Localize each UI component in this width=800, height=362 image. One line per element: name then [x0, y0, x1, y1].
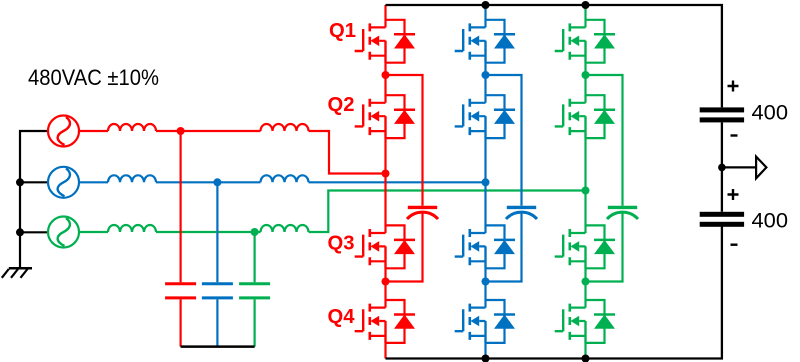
MOSFET Q4 with body diode (red)	[355, 300, 415, 343]
node B2 (leg B lower)	[482, 278, 490, 286]
inductor L1A	[108, 124, 156, 131]
node C1 (leg C upper)	[582, 71, 590, 79]
node N1 (rail-blue junction)	[16, 178, 24, 186]
svg-text:Q4: Q4	[328, 306, 356, 328]
wire DC midpoint	[721, 122, 723, 211]
polarity + of C2	[728, 189, 739, 200]
node C phase input	[582, 187, 590, 195]
wire phase A segment 1	[79, 131, 386, 174]
wire filter neutral (black)	[181, 345, 255, 348]
wire flying-cap branch C	[586, 75, 623, 282]
wire flying-cap branch B	[486, 75, 522, 282]
wire midpoint output	[722, 166, 756, 168]
wire phase B segment 1	[79, 181, 486, 183]
node B phase input	[482, 178, 490, 186]
node A phase input	[382, 170, 390, 178]
MOSFET SC2 with body diode (green)	[555, 95, 615, 138]
MOSFET SB1 with body diode (blue)	[455, 20, 515, 63]
MOSFET SB3 with body diode (blue)	[455, 225, 515, 268]
node N2 (rail-green junction)	[16, 228, 24, 236]
inductor L2A	[261, 124, 309, 131]
MOSFET SB4 with body diode (blue)	[455, 300, 515, 343]
svg-text:Q2: Q2	[328, 94, 355, 116]
svg-text:400: 400	[752, 210, 789, 233]
MOSFET SB2 with body diode (blue)	[455, 95, 515, 138]
node A1 (leg A upper)	[382, 71, 390, 79]
AC source VB (phase B, blue)	[48, 167, 79, 198]
inductor L1C	[108, 225, 156, 232]
filter capacitor CFC (green)	[239, 232, 270, 347]
filter capacitor CFA (red)	[165, 131, 196, 347]
DC link capacitor C1	[700, 107, 744, 122]
node DC midpoint	[718, 164, 726, 172]
node top bus B	[482, 1, 490, 9]
node top bus C	[582, 1, 590, 9]
filter capacitor CFB (blue)	[202, 182, 233, 346]
wire flying-cap branch A	[386, 75, 423, 282]
flying capacitor CC	[607, 207, 638, 219]
wire DC+ bus (top)	[386, 5, 722, 107]
wire DC- bus (bottom)	[386, 226, 722, 359]
node filter tap C	[251, 228, 259, 236]
MOSFET SC3 with body diode (green)	[555, 225, 615, 268]
node filter tap A	[177, 127, 185, 135]
MOSFET Q3 with body diode (red)	[355, 225, 415, 268]
node A2 (leg A lower)	[382, 278, 390, 286]
node filter tap B	[213, 178, 221, 186]
polarity - of C2	[731, 243, 738, 245]
DC link capacitor C2	[700, 212, 744, 227]
inductor L1B	[108, 175, 156, 182]
MOSFET SC1 with body diode (green)	[555, 20, 615, 63]
wire leg B vertical	[484, 5, 486, 359]
wire leg C vertical	[584, 5, 586, 359]
inductor L2C	[261, 225, 309, 232]
node C2 (leg C lower)	[582, 278, 590, 286]
wire leg A vertical	[384, 5, 386, 359]
polarity + of C1	[728, 81, 739, 92]
svg-text:400: 400	[752, 102, 789, 125]
MOSFET Q2 with body diode (red)	[355, 95, 415, 138]
svg-text:480VAC ±10%: 480VAC ±10%	[28, 65, 159, 90]
svg-text:Q3: Q3	[328, 232, 355, 254]
node bottom bus C	[582, 355, 590, 362]
output arrow terminal	[756, 157, 766, 179]
MOSFET SC4 with body diode (green)	[555, 300, 615, 343]
flying capacitor CB	[506, 207, 537, 219]
node bottom bus B	[482, 355, 490, 362]
inductor L2B	[261, 175, 309, 182]
AC source VA (phase A, red)	[48, 116, 79, 147]
neutral rail wire (left black)	[20, 131, 48, 232]
svg-text:Q1: Q1	[329, 20, 356, 42]
MOSFET Q1 with body diode (red)	[355, 20, 415, 63]
ground	[2, 232, 32, 277]
flying capacitor CA	[407, 207, 438, 219]
polarity - of C1	[731, 134, 738, 136]
wire phase C segment 1	[79, 191, 586, 233]
node B1 (leg B upper)	[482, 71, 490, 79]
AC source VC (phase C, green)	[48, 217, 79, 248]
